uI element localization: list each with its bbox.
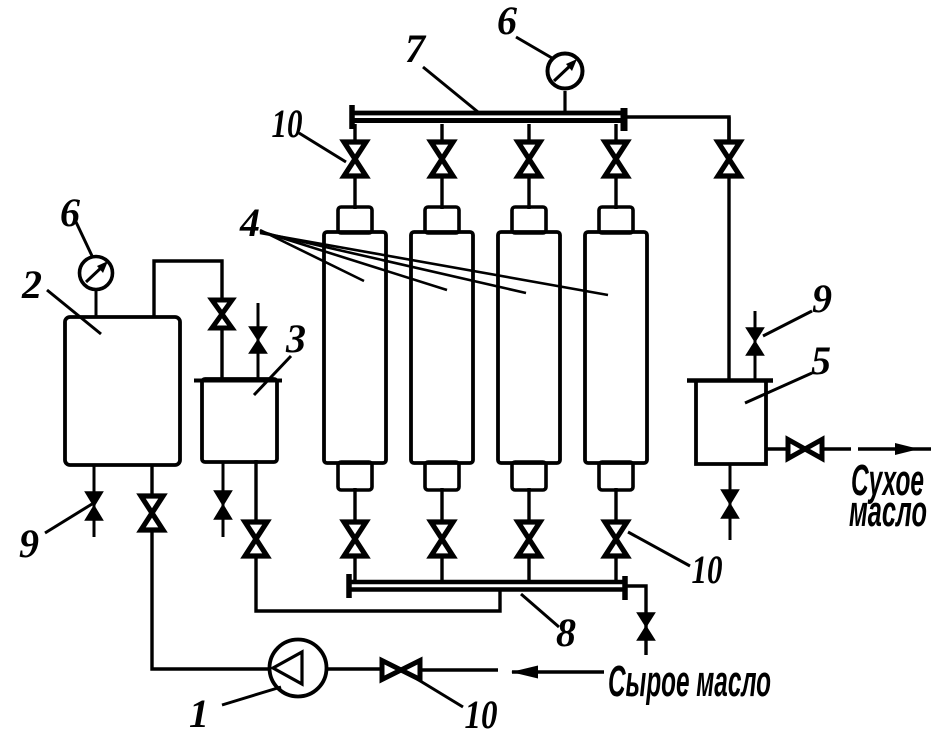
gauge U6 top (pressure gauge) xyxy=(548,54,583,89)
valve 10 tank5 outlet xyxy=(788,440,822,459)
adsorber column 4-3 bottom neck xyxy=(512,462,546,490)
valve 9 tank3 drain xyxy=(215,491,232,519)
pump P1 (centrifugal pump) xyxy=(270,640,327,697)
svg-text:6: 6 xyxy=(497,0,517,43)
tank 2 (mixer vessel) xyxy=(65,317,180,465)
svg-text:9: 9 xyxy=(812,276,832,321)
wire stem column bottom to valve (x=442) xyxy=(440,488,443,523)
leader line 9 left xyxy=(45,504,92,533)
wire stem valve to manifold8 (x=442) xyxy=(440,554,443,582)
wire pump suction xyxy=(326,667,383,670)
valve 9 tank5 vent xyxy=(747,328,764,355)
pipe manifold 8 (bottom header, double line) xyxy=(347,574,627,600)
svg-text:8: 8 xyxy=(556,610,576,655)
flow arrow raw oil xyxy=(511,666,604,679)
svg-text:10: 10 xyxy=(692,547,723,592)
adsorber column 4-2 top neck xyxy=(425,207,459,233)
wire tank3 drain left xyxy=(222,462,225,537)
wire tank2 outlet down xyxy=(150,465,153,497)
pipe manifold 8 right drain xyxy=(627,586,646,655)
svg-text:масло: масло xyxy=(849,487,927,536)
wire tank5 drain xyxy=(729,464,732,540)
wire stem manifold7 to valve (x=729) xyxy=(727,117,730,143)
wire stem manifold7 to valve (x=616) xyxy=(614,124,617,143)
valve 10 under tank 3 xyxy=(245,522,267,556)
leader line 5 xyxy=(745,373,812,403)
valve 9 tank5 drain xyxy=(722,490,739,518)
tank 3 (measuring vessel) xyxy=(202,379,277,462)
adsorber column 4-1 bottom neck xyxy=(338,462,372,490)
leader line 6 left xyxy=(76,222,93,258)
svg-text:6: 6 xyxy=(60,190,80,235)
valve 10 bottom #2 xyxy=(431,522,453,556)
wire tank2 drain left xyxy=(93,465,96,537)
adsorber column 4-3 body xyxy=(498,232,560,463)
adsorber column 4-2 body xyxy=(411,232,473,463)
valve 10 suction xyxy=(382,661,420,680)
flow arrow dry oil xyxy=(858,443,931,455)
wire stem column bottom to valve (x=529) xyxy=(527,488,530,523)
valve 10 top #2 xyxy=(431,142,453,176)
adsorber column 4-3 top neck xyxy=(512,207,546,233)
svg-text:Сырое масло: Сырое масло xyxy=(608,657,771,706)
leader line 6 top xyxy=(516,37,552,58)
valve 10 top #4 xyxy=(605,142,627,176)
valve 10 bottom #1 xyxy=(344,522,366,556)
wire stem valve to column neck (x=529) xyxy=(527,174,530,209)
tank 3 top flange line xyxy=(194,379,282,383)
valve 10 bottom #4 xyxy=(605,522,627,556)
wire tank5 outlet xyxy=(766,447,789,450)
gauge U6 top stem xyxy=(563,91,566,114)
wire stem valve to column neck (x=616) xyxy=(614,174,617,209)
adsorber column 4-4 top neck xyxy=(599,207,633,233)
valve 10 top #3 xyxy=(518,142,540,176)
wire stem column bottom to valve (x=616) xyxy=(614,488,617,523)
adsorber column 4-4 bottom neck xyxy=(599,462,633,490)
svg-text:7: 7 xyxy=(405,26,427,71)
svg-text:10: 10 xyxy=(465,692,498,737)
wire stem valve to manifold8 (x=529) xyxy=(527,554,530,582)
leader line 7 xyxy=(423,67,478,112)
wire stem manifold7 to valve (x=529) xyxy=(527,124,530,143)
wire stem valve to column neck (x=355) xyxy=(353,174,356,209)
valve 10 top #5 xyxy=(718,142,740,176)
wire outlet to arrow xyxy=(820,447,851,450)
wire valve to raw oil inlet xyxy=(419,668,498,671)
adsorber column 4-1 top neck xyxy=(338,207,372,233)
gauge U6 left stem xyxy=(95,290,98,318)
tank 5 (product receiver) xyxy=(696,381,766,464)
valve 10 between tank2 and tank3 xyxy=(212,300,232,328)
wire tank3 bottom to valve xyxy=(254,460,257,523)
leader line 2 xyxy=(47,290,101,334)
wire tank5 vent pipe xyxy=(754,311,757,380)
wire stem valve to manifold8 (x=355) xyxy=(353,554,356,582)
pipe manifold 7 (top header, double line) xyxy=(350,105,627,131)
leader line 10 bottom-right xyxy=(628,532,690,566)
svg-text:2: 2 xyxy=(21,262,42,307)
wire valve to tank3 top xyxy=(220,326,223,380)
wire stem column bottom to valve (x=355) xyxy=(353,488,356,523)
valve 10 top #1 xyxy=(344,142,366,176)
leader line 8 xyxy=(521,594,559,627)
valve 10 tank2 outlet xyxy=(141,496,163,530)
adsorber column 4-4 body xyxy=(585,232,647,463)
wire stem valve to column neck (x=442) xyxy=(440,174,443,209)
svg-text:3: 3 xyxy=(285,316,306,361)
wire stem manifold7 to valve (x=355) xyxy=(353,124,356,143)
wire tank3 vent pipe xyxy=(257,303,260,380)
svg-text:4: 4 xyxy=(239,200,260,245)
wire stem manifold7 to valve (x=442) xyxy=(440,124,443,143)
pipe tank3 outlet to manifold 8 xyxy=(256,555,500,611)
pipe manifold 7 right extension to riser xyxy=(626,117,729,141)
pipe riser to tank 5 xyxy=(727,174,730,380)
svg-text:9: 9 xyxy=(19,521,39,566)
leader line 1 xyxy=(222,687,281,705)
valve 9 tank2 drain xyxy=(86,492,103,520)
adsorber column 4-2 bottom neck xyxy=(425,462,459,490)
leader line 10 top-left xyxy=(299,133,346,162)
svg-text:10: 10 xyxy=(272,101,303,146)
valve 9 tank3 vent xyxy=(250,327,267,353)
pipe tank2 outlet to pump xyxy=(152,528,269,669)
leader line 10 bottom xyxy=(417,679,463,707)
wire stem valve to manifold8 (x=616) xyxy=(614,554,617,582)
pipe tank2 top to tank3 top xyxy=(154,261,222,318)
leader line 9 right xyxy=(763,311,812,336)
tank 5 top flange line xyxy=(687,378,773,382)
leader lines 4 (fan to four columns) xyxy=(260,230,608,295)
leader line 3 xyxy=(254,356,291,395)
valve 10 bottom #3 xyxy=(518,522,540,556)
svg-text:1: 1 xyxy=(189,691,209,736)
svg-text:5: 5 xyxy=(811,338,831,383)
valve 9 drain at manifold 8 end xyxy=(638,613,655,640)
gauge U6 left (pressure gauge) xyxy=(80,257,113,290)
adsorber column 4-1 body xyxy=(324,232,386,463)
